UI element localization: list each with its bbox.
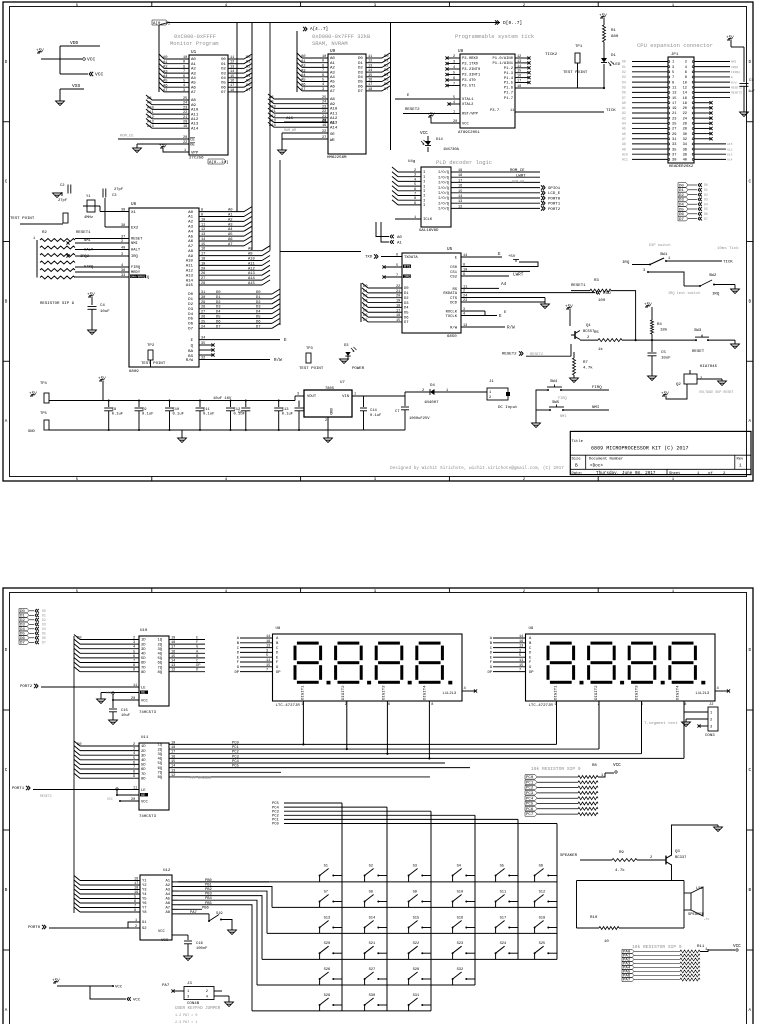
svg-text:6850: 6850 [447,335,457,339]
svg-text:3: 3 [453,61,455,65]
svg-text:19: 19 [171,637,175,641]
svg-text:Y1: Y1 [86,195,91,199]
svg-text:G1: G1 [142,921,147,925]
svg-text:A9: A9 [330,103,335,107]
svg-text:A14: A14 [186,279,194,283]
svg-text:D3: D3 [622,75,626,79]
svg-text:I/O/Q: I/O/Q [438,196,450,201]
svg-text:27C256: 27C256 [189,157,204,161]
svg-text:TICK: TICK [606,109,616,113]
svg-text:30: 30 [201,296,205,300]
svg-text:VCC: VCC [462,123,470,127]
svg-text:RAM_WR: RAM_WR [284,129,296,133]
svg-text:10: 10 [183,56,187,60]
svg-text:2: 2 [325,419,327,423]
svg-text:RESET: RESET [131,238,143,242]
svg-text:8: 8 [684,703,686,707]
svg-text:A0: A0 [191,58,196,62]
svg-text:S12: S12 [539,891,546,895]
svg-text:20: 20 [453,120,457,124]
svg-text:D3: D3 [704,198,708,202]
svg-text:P1.7: P1.7 [504,97,513,101]
svg-text:6: 6 [388,703,390,707]
svg-text:7: 7 [134,905,136,909]
svg-text:D6: D6 [188,323,193,327]
svg-text:A4: A4 [228,228,233,232]
svg-text:12: 12 [683,86,687,90]
svg-text:5D: 5D [141,764,146,768]
svg-text:A13: A13 [191,123,199,127]
svg-text:7: 7 [453,83,455,87]
svg-text:D3: D3 [344,344,349,348]
svg-text:CTS: CTS [450,297,458,301]
svg-text:O7: O7 [221,91,226,95]
svg-text:B: B [5,888,8,893]
svg-text:A13: A13 [147,121,155,125]
svg-text:20: 20 [131,798,135,802]
svg-text:D3: D3 [256,306,261,310]
svg-text:2: 2 [453,55,455,59]
svg-text:O4: O4 [221,77,226,81]
svg-text:0.1uF: 0.1uF [282,413,294,417]
svg-text:S28: S28 [413,968,420,972]
svg-text:D6: D6 [216,320,221,324]
svg-text:4.7k: 4.7k [615,868,625,873]
svg-text:TEST POINT: TEST POINT [10,217,35,221]
svg-text:A7: A7 [188,245,193,249]
svg-text:2: 2 [489,396,491,400]
svg-text:D2: D2 [704,193,708,197]
svg-text:NMI: NMI [592,406,600,410]
svg-text:4: 4 [322,83,324,87]
svg-text:DC Input: DC Input [498,406,518,410]
svg-text:S1: S1 [324,865,329,869]
svg-text:2: 2 [685,61,687,65]
svg-text:40: 40 [121,247,125,251]
svg-text:A4: A4 [330,76,335,80]
svg-text:D2: D2 [42,618,46,622]
svg-text:D4: D4 [358,76,363,80]
svg-text:B: B [749,888,752,893]
svg-text:DP: DP [196,664,201,668]
svg-text:11: 11 [133,787,137,791]
svg-text:R8: R8 [592,764,597,768]
svg-text:34: 34 [201,337,205,341]
svg-text:PB1: PB1 [205,883,213,887]
svg-text:A7: A7 [165,907,170,911]
svg-text:D0: D0 [77,743,82,747]
svg-text:RXCLK: RXCLK [446,311,458,315]
svg-text:RESET3: RESET3 [731,92,742,95]
svg-text:D6: D6 [42,636,46,640]
svg-text:A6: A6 [622,132,626,136]
svg-text:20: 20 [131,697,135,701]
svg-text:8: 8 [414,197,416,201]
svg-text:7D: 7D [141,666,146,670]
svg-text:U12: U12 [163,869,171,873]
svg-text:35: 35 [201,342,205,346]
svg-text:30: 30 [683,133,687,137]
svg-text:R/W: R/W [507,326,515,331]
svg-text:16: 16 [134,878,138,882]
svg-text:5D: 5D [141,657,146,661]
svg-text:A9: A9 [188,255,193,259]
svg-text:A11: A11 [622,158,628,162]
svg-text:D5: D5 [622,85,626,89]
svg-text:Sheet: Sheet [669,471,680,476]
svg-text:S8: S8 [369,891,373,895]
svg-text:A3: A3 [330,71,335,75]
svg-text:A12: A12 [330,117,338,121]
svg-text:SW2: SW2 [709,274,717,278]
svg-text:37: 37 [672,153,676,157]
svg-text:2: 2 [463,290,465,294]
svg-text:16: 16 [368,79,372,83]
svg-text:12: 12 [368,60,372,64]
svg-text:9: 9 [201,214,203,218]
svg-text:D: D [749,648,752,653]
svg-text:8: 8 [322,64,324,68]
svg-text:19: 19 [322,124,326,128]
svg-text:G2: G2 [142,927,147,931]
svg-text:FIRQ: FIRQ [592,386,602,390]
svg-text:15: 15 [368,74,372,78]
svg-text:3: 3 [672,66,674,70]
svg-text:SW3: SW3 [694,329,702,333]
svg-text:14: 14 [201,238,205,242]
svg-text:5: 5 [133,650,135,654]
svg-text:3Q: 3Q [157,648,162,652]
svg-text:D: D [5,60,8,65]
svg-text:A6: A6 [188,240,193,244]
svg-text:A5: A5 [188,235,193,239]
svg-text:U8: U8 [458,49,464,54]
svg-text:VCC: VCC [141,801,149,805]
svg-text:7Q: 7Q [157,666,162,670]
svg-text:8: 8 [183,65,185,69]
svg-text:NMI: NMI [731,61,737,64]
svg-text:HM62256M: HM62256M [327,156,347,160]
svg-text:A10: A10 [330,108,338,112]
svg-text:17: 17 [368,83,372,87]
svg-text:VCC: VCC [613,763,621,768]
svg-text:VCC: VCC [107,797,113,801]
svg-text:15: 15 [171,655,175,659]
svg-text:A5: A5 [228,233,233,237]
svg-text:Y7: Y7 [142,907,147,911]
svg-text:TP3: TP3 [306,347,314,351]
svg-text:27pF: 27pF [58,199,68,203]
svg-text:Y8: Y8 [142,911,147,915]
svg-text:16: 16 [519,640,523,644]
svg-text:11: 11 [519,659,523,663]
svg-text:A4: A4 [501,282,507,287]
svg-text:C11: C11 [203,408,211,412]
svg-text:D3: D3 [42,623,46,627]
svg-text:PC1: PC1 [232,746,240,750]
svg-text:27: 27 [201,311,205,315]
svg-text:A3: A3 [165,889,170,893]
svg-text:A1: A1 [301,60,306,64]
svg-text:SW4: SW4 [550,380,558,384]
svg-text:A9: A9 [248,253,253,257]
svg-text:22: 22 [183,111,187,115]
svg-text:I/O/Q: I/O/Q [438,191,450,196]
svg-text:PB6: PB6 [202,906,210,910]
svg-text:D3: D3 [216,306,221,310]
svg-text:PC0: PC0 [526,776,534,780]
svg-text:P3.5T1: P3.5T1 [462,85,476,89]
svg-text:6Q: 6Q [157,767,162,771]
svg-text:17: 17 [458,179,462,183]
svg-text:16: 16 [396,314,400,318]
svg-text:17: 17 [672,102,676,106]
svg-text:Designed by Wichit Sirichote,: Designed by Wichit Sirichote, wichit.sir… [390,466,564,471]
svg-text:A15: A15 [248,282,256,286]
svg-text:A5: A5 [330,81,335,85]
svg-text:2: 2 [414,169,416,173]
svg-text:Q3: Q3 [675,850,680,854]
svg-text:D5: D5 [404,311,409,315]
svg-text:A7: A7 [228,243,233,247]
svg-text:DIGIT3: DIGIT3 [383,685,387,700]
svg-text:A[0..7]: A[0..7] [153,21,170,26]
svg-text:GAL16V8D: GAL16V8D [419,229,439,233]
svg-text:22: 22 [183,141,187,145]
svg-text:8D: 8D [141,777,146,781]
svg-text:RAM_WR: RAM_WR [512,181,524,185]
svg-text:Y5: Y5 [142,898,147,902]
svg-text:R5: R5 [594,331,599,335]
svg-text:74HC573: 74HC573 [139,711,157,715]
svg-text:2: 2 [133,743,135,747]
svg-text:12: 12 [171,669,175,673]
svg-text:WE: WE [330,139,335,143]
svg-text:A10: A10 [147,106,155,110]
svg-text:D7: D7 [246,89,251,93]
svg-text:5: 5 [453,96,455,100]
svg-text:A3: A3 [191,72,196,76]
svg-text:TEST POINT: TEST POINT [141,362,166,366]
svg-text:2: 2 [710,719,712,723]
svg-text:U9: U9 [330,49,336,54]
svg-text:13: 13 [519,645,523,649]
svg-text:C13: C13 [282,408,290,412]
svg-text:6: 6 [133,761,135,765]
svg-text:5Q: 5Q [157,657,162,661]
svg-text:74HC573: 74HC573 [139,815,157,819]
svg-text:3D: 3D [141,648,146,652]
svg-text:S7: S7 [324,891,328,895]
svg-text:D3: D3 [20,623,25,627]
svg-text:A: A [5,419,8,424]
svg-text:27: 27 [322,136,326,140]
svg-text:A6: A6 [191,86,196,90]
svg-text:D7: D7 [216,325,221,329]
svg-text:9: 9 [672,81,674,85]
svg-text:P1.3: P1.3 [504,72,514,76]
svg-text:PC4: PC4 [526,797,534,801]
svg-text:PORT1: PORT1 [548,203,561,207]
svg-text:A10: A10 [622,152,628,156]
svg-text:A3: A3 [228,223,233,227]
svg-text:A4: A4 [188,230,193,234]
svg-text:S16: S16 [457,917,464,921]
svg-text:S3: S3 [413,865,417,869]
svg-text:1: 1 [135,919,137,923]
svg-text:D6: D6 [404,316,409,320]
svg-text:SRAM, NVRAM: SRAM, NVRAM [312,41,348,47]
svg-text:S4: S4 [457,865,462,869]
svg-text:18: 18 [230,89,234,93]
svg-text:3: 3 [710,726,712,730]
svg-text:SPEAKER: SPEAKER [560,854,578,858]
svg-text:A1: A1 [188,216,193,220]
svg-text:36: 36 [121,269,125,273]
svg-text:29: 29 [672,133,676,137]
svg-text:1Q: 1Q [157,639,162,643]
svg-text:D0: D0 [188,293,193,297]
svg-text:B: B [575,463,578,469]
svg-text:8: 8 [431,703,433,707]
svg-text:A6: A6 [330,85,335,89]
svg-text:A14: A14 [330,126,338,130]
svg-text:C5: C5 [661,351,666,355]
svg-text:C14: C14 [370,409,378,413]
svg-text:32: 32 [683,138,687,142]
svg-text:A0: A0 [330,57,335,61]
svg-text:5: 5 [133,757,135,761]
svg-text:I/O/Q: I/O/Q [438,186,450,191]
svg-text:RESET1: RESET1 [76,231,91,235]
svg-text:A0: A0 [188,211,193,215]
svg-text:24: 24 [322,101,326,105]
svg-text:3: 3 [133,748,135,752]
svg-text:A14: A14 [248,277,256,281]
svg-text:20: 20 [201,267,205,271]
svg-text:S32: S32 [457,968,464,972]
svg-text:RESET2: RESET2 [502,353,517,357]
svg-text:D7: D7 [20,641,25,645]
svg-text:A2: A2 [165,884,170,888]
svg-text:33: 33 [672,143,676,147]
svg-text:VPP: VPP [191,152,199,156]
svg-text:13: 13 [458,200,462,204]
svg-text:<Doc>: <Doc> [590,464,603,469]
svg-text:100nF: 100nF [196,947,208,951]
svg-text:A8: A8 [191,99,196,103]
svg-text:8Q: 8Q [157,671,162,675]
svg-text:E: E [284,338,287,343]
svg-text:RXDATA: RXDATA [443,292,457,296]
svg-text:D1: D1 [188,298,193,302]
svg-text:E: E [498,252,501,257]
svg-text:7: 7 [266,669,268,673]
svg-text:DIGIT2: DIGIT2 [595,685,599,700]
svg-text:A13: A13 [186,274,194,278]
svg-text:D1: D1 [216,296,221,300]
svg-text:TP1: TP1 [575,45,583,49]
svg-text:VCC: VCC [133,999,141,1003]
svg-text:A4: A4 [191,77,196,81]
svg-text:D2: D2 [188,303,193,307]
svg-text:6Q: 6Q [157,662,162,666]
svg-text:Programmable system tick: Programmable system tick [455,33,535,40]
svg-text:2: 2 [133,637,135,641]
svg-text:3D: 3D [141,754,146,758]
svg-text:BC337: BC337 [675,856,686,860]
svg-text:NMI: NMI [131,242,138,246]
svg-text:D6: D6 [358,85,363,89]
svg-text:13: 13 [171,664,175,668]
svg-text:A1: A1 [228,214,233,218]
svg-text:20: 20 [183,136,187,140]
svg-text:A7: A7 [622,137,626,141]
svg-text:6: 6 [396,254,398,258]
svg-text:D0: D0 [358,57,363,61]
svg-text:U5: U5 [447,247,453,252]
svg-text:1: 1 [414,216,416,220]
svg-text:HALT: HALT [84,249,94,253]
svg-text:8: 8 [685,76,687,80]
svg-text:PORT2: PORT2 [548,208,561,212]
svg-text:A14: A14 [147,125,155,129]
svg-text:A0: A0 [622,101,626,105]
svg-text:680: 680 [611,35,619,39]
svg-text:D4: D4 [704,202,708,206]
svg-text:S31: S31 [413,994,420,998]
svg-text:A8: A8 [147,97,152,101]
svg-text:8: 8 [133,664,135,668]
svg-text:PORT1: PORT1 [12,787,25,791]
svg-text:TICK: TICK [723,261,733,265]
svg-text:15: 15 [458,190,462,194]
svg-text:A10: A10 [191,109,199,113]
svg-text:4: 4 [121,264,123,268]
svg-text:A0: A0 [301,55,306,59]
svg-text:LWRT: LWRT [513,273,524,278]
svg-text:+5V: +5V [508,255,516,259]
svg-text:CS1: CS1 [450,271,458,275]
svg-text:D7: D7 [358,90,363,94]
svg-text:TICK2: TICK2 [545,53,558,57]
svg-text:GND: GND [28,430,36,434]
svg-text:A1: A1 [622,106,626,110]
svg-text:IRQ2: IRQ2 [731,66,738,69]
svg-text:J2: J2 [709,703,713,707]
svg-text:A3: A3 [301,69,306,73]
svg-text:A12: A12 [186,270,194,274]
svg-text:P1.2: P1.2 [504,67,514,71]
svg-text:40: 40 [683,159,687,163]
svg-text:15: 15 [201,243,205,247]
svg-text:37: 37 [121,236,125,240]
svg-text:O1: O1 [221,63,226,67]
svg-text:D5: D5 [216,316,221,320]
svg-text:R/W: R/W [186,358,194,363]
svg-text:O3: O3 [221,72,226,76]
svg-text:S10: S10 [457,891,464,895]
svg-text:OE: OE [330,133,335,137]
svg-text:S5: S5 [500,865,504,869]
svg-text:I: I [423,190,425,194]
svg-text:A9: A9 [622,147,626,151]
svg-text:25: 25 [672,123,676,127]
svg-text:RST/VPP: RST/VPP [462,112,479,117]
svg-text:I: I [423,204,425,208]
svg-text:7D: 7D [141,773,146,777]
svg-text:A7: A7 [330,90,335,94]
